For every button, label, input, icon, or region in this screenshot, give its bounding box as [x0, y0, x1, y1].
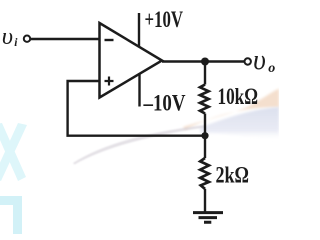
resistor R2 2k zigzag	[200, 158, 209, 189]
svg-text:–10V: –10V	[143, 91, 186, 116]
wire op-amp output to vo terminal	[162, 60, 245, 62]
wire junction down to R2	[204, 136, 206, 158]
input terminal vi (open circle)	[24, 36, 30, 42]
-10V power pin wire	[138, 74, 140, 107]
op-amp plus symbol	[105, 77, 114, 86]
node: output junction dot	[201, 58, 209, 66]
svg-text:o: o	[268, 61, 275, 76]
wire R1 to junction node	[204, 114, 206, 136]
svg-text:10kΩ: 10kΩ	[218, 84, 259, 109]
+10V power pin wire	[138, 13, 140, 47]
ground symbol	[193, 213, 223, 223]
output terminal vo (open circle)	[245, 58, 251, 64]
op-amp minus symbol	[105, 39, 114, 41]
svg-text:2kΩ: 2kΩ	[216, 163, 250, 188]
node: feedback junction dot	[201, 132, 208, 139]
svg-text:+10V: +10V	[145, 7, 184, 32]
wire input vi to inverting input	[31, 38, 100, 40]
wire R2 to ground	[204, 189, 206, 212]
resistor R1 10k zigzag	[200, 85, 209, 114]
svg-text:υ: υ	[2, 23, 13, 50]
wire output node down to R1	[204, 62, 206, 85]
feedback wire from junction to + input	[68, 81, 205, 136]
op-amp U1	[100, 23, 163, 98]
svg-text:υ: υ	[253, 45, 266, 76]
